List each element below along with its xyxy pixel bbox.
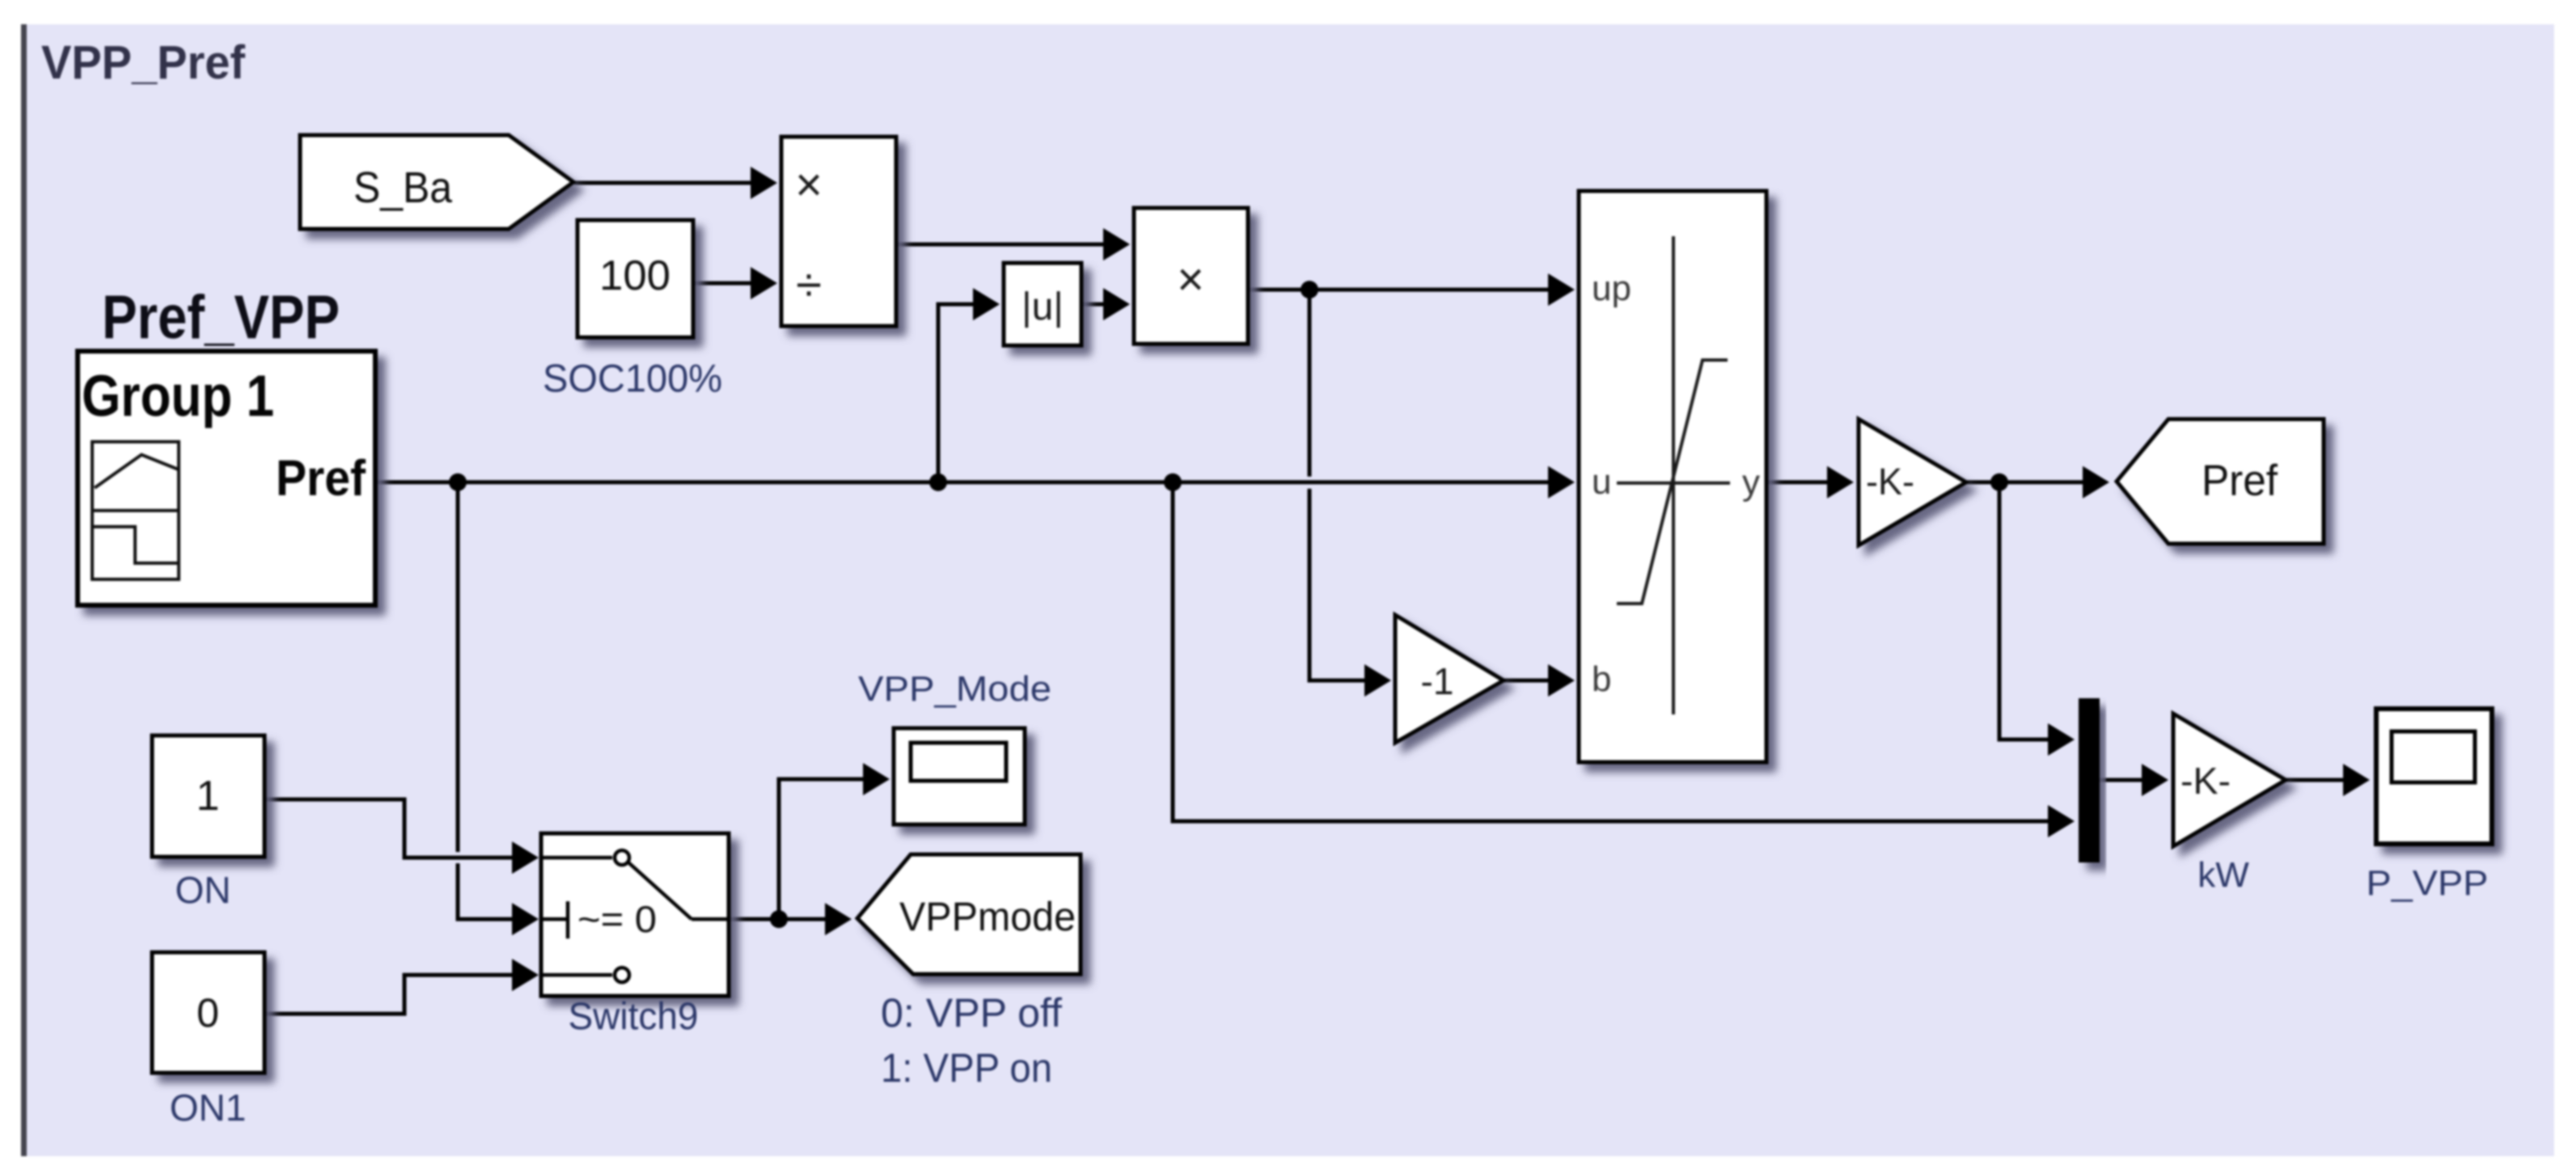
svg-text:1: VPP on: 1: VPP on (881, 1045, 1052, 1091)
svg-text:P_VPP: P_VPP (2367, 863, 2489, 903)
svg-text:0: 0 (197, 990, 219, 1036)
svg-text:Group 1: Group 1 (82, 364, 274, 429)
svg-text:0: VPP off: 0: VPP off (881, 990, 1062, 1036)
svg-text:ON: ON (176, 869, 231, 911)
graph saturation curve (1617, 360, 1728, 604)
product block U2 (x) (1134, 208, 1248, 344)
svg-text:|u|: |u| (1022, 286, 1064, 328)
wire 100 to product (693, 282, 763, 286)
arrow into u (1548, 466, 1575, 498)
wire const0 to switch in3 (264, 975, 531, 1014)
svg-text:Pref: Pref (276, 451, 366, 506)
svg-text:ON1: ON1 (170, 1087, 247, 1129)
arrow into product2 bottom (1103, 288, 1130, 320)
svg-text:VPPmode: VPPmode (899, 894, 1076, 939)
gain kW (2173, 714, 2286, 846)
svg-text:u: u (1592, 462, 1611, 502)
wire branch to abs (938, 304, 992, 482)
wire const1 to switch in1 (264, 799, 531, 858)
wire mux to kW gain (2100, 778, 2159, 782)
svg-text:÷: ÷ (796, 259, 822, 312)
arrow into display block (863, 763, 890, 795)
arrow into product x (751, 167, 777, 199)
svg-text:b: b (1592, 659, 1611, 699)
switch lever (628, 862, 692, 919)
arrow into product2 top (1103, 228, 1130, 261)
arrow into kW gain (2142, 764, 2168, 796)
svg-text:Switch9: Switch9 (569, 994, 699, 1037)
wire junction down to -1 gain (gap at main wire crossing) (1308, 290, 1312, 477)
window edge line (21, 24, 27, 1156)
signal icon step (92, 527, 179, 563)
arrow into VPPmode port (825, 903, 852, 935)
constant block 1 (152, 735, 264, 857)
switch stub in1 (541, 856, 612, 860)
svg-text:1: 1 (197, 773, 220, 820)
arrow into abs (973, 288, 1000, 320)
arrow into up (1548, 273, 1575, 306)
graph axis (1672, 236, 1675, 714)
arrow into -1 gain (1364, 664, 1391, 697)
arrow into Pref port (2083, 466, 2109, 498)
arrow into mux in1 (2048, 723, 2075, 756)
arrow into mux in2 (2048, 805, 2075, 837)
arrow into b (1548, 664, 1575, 697)
switch block Switch9 (541, 833, 729, 996)
svg-text:S_Ba: S_Ba (353, 163, 453, 212)
svg-text:VPP_Pref: VPP_Pref (41, 36, 246, 89)
svg-text:×: × (1177, 253, 1204, 306)
wire branch main to mux input2 (1173, 482, 2066, 821)
inport S_Ba (300, 135, 573, 229)
switch circle in3 (615, 968, 629, 982)
node on main wire to abs (929, 473, 947, 491)
svg-text:~= 0: ~= 0 (577, 898, 657, 940)
rate limiter dynamic block (1579, 191, 1766, 762)
outport Pref (2117, 419, 2324, 544)
switch stub in3 (541, 973, 612, 977)
svg-text:y: y (1742, 463, 1760, 502)
wire ratelimiter y to gain (1766, 481, 1843, 485)
arrow into switch in1 (512, 841, 539, 874)
constant block 100 (577, 220, 693, 337)
svg-text:up: up (1592, 269, 1631, 308)
svg-text:-1: -1 (1421, 660, 1454, 702)
wire gain to Pref port (1966, 481, 2100, 485)
arrow into switch in2 (512, 903, 539, 935)
graph u-y line (1617, 481, 1730, 485)
node after gain1 (1990, 473, 2008, 491)
switch circle in1 (615, 850, 629, 865)
arrow into gain1 (1827, 466, 1854, 498)
wire product1 to product2 (896, 243, 1124, 247)
node on main wire to switch (449, 473, 467, 491)
signal icon curve (95, 455, 178, 488)
wire branch down to mux input1 (1999, 482, 2066, 740)
wire abs to product2 (1081, 303, 1124, 307)
gain -1 (1395, 615, 1504, 743)
gain -K- (Pref) (1859, 419, 1966, 545)
signal icon box (92, 442, 179, 579)
node after product2 (1301, 281, 1318, 299)
arrow into scope (2343, 764, 2370, 796)
wire switch output (729, 918, 843, 922)
wire -1 gain to b (1504, 679, 1563, 683)
svg-text:100: 100 (599, 252, 670, 299)
wire kW gain to scope (2286, 778, 2360, 782)
wire main Pref line (375, 481, 1563, 485)
svg-text:-K-: -K- (2181, 760, 2231, 802)
scope P_VPP (2376, 709, 2492, 844)
wire control branch to switch in2 (gap at crossing) (456, 482, 460, 852)
mux (2079, 698, 2100, 862)
abs block |u| (1004, 263, 1081, 345)
svg-text:Pref_VPP: Pref_VPP (102, 283, 340, 352)
node after switch (770, 910, 788, 928)
subsystem Group 1 (78, 351, 375, 605)
outport VPPmode (857, 854, 1081, 974)
svg-text:SOC100%: SOC100% (543, 358, 722, 401)
svg-text:-K-: -K- (1866, 460, 1914, 502)
switch control tick (566, 901, 570, 939)
wire branch up to display block (779, 779, 881, 919)
arrowheads (512, 167, 2370, 991)
svg-text:Pref: Pref (2202, 456, 2278, 505)
wires group (264, 183, 2360, 1014)
constant block 0 (152, 952, 264, 1073)
display block VPP_Mode (894, 728, 1025, 824)
node on main wire to mux (1164, 473, 1182, 491)
svg-text:kW: kW (2197, 855, 2249, 895)
product block U1 (x,/) (781, 137, 896, 326)
svg-text:×: × (795, 159, 823, 211)
arrow into switch in3 (512, 959, 539, 991)
wire product2 to up (1248, 288, 1563, 292)
arrow into product div (751, 267, 777, 299)
wire S_Ba to product (574, 181, 763, 185)
svg-text:VPP_Mode: VPP_Mode (858, 669, 1051, 709)
